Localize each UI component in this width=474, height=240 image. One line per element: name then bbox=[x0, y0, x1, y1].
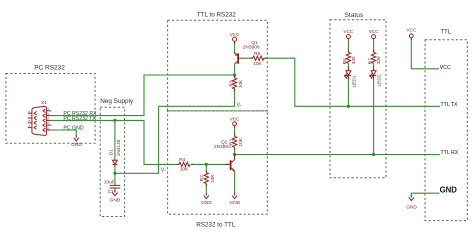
junction R2 tap on base line bbox=[205, 163, 208, 166]
svg-text:LED1: LED1 bbox=[351, 75, 357, 87]
svg-text:VCC: VCC bbox=[406, 27, 416, 32]
junction Q2 collector node bbox=[233, 153, 236, 156]
power VCC above Q1 bbox=[230, 32, 240, 41]
capacitor C1 10uF bbox=[104, 180, 120, 195]
svg-text:10K: 10K bbox=[180, 166, 189, 172]
svg-text:R3: R3 bbox=[229, 80, 235, 86]
resistor R2 10K bbox=[199, 164, 216, 183]
svg-text:10K: 10K bbox=[238, 79, 244, 88]
junction LED1 on TTL TX bbox=[347, 105, 350, 108]
wire PC RS232 RX net bbox=[51, 75, 234, 116]
svg-text:PC RS232: PC RS232 bbox=[34, 64, 65, 71]
module box PC RS232 bbox=[6, 64, 95, 143]
wire Q1 base to R5 bbox=[245, 57, 253, 59]
wire LED2 to TTL RX bbox=[373, 81, 375, 155]
svg-text:TTL TX: TTL TX bbox=[441, 102, 459, 108]
svg-text:R6: R6 bbox=[342, 58, 348, 64]
svg-text:330: 330 bbox=[376, 56, 382, 64]
module box Neg Supply bbox=[100, 98, 134, 217]
resistor R1 10K bbox=[229, 136, 244, 147]
wire R7 to LED2 bbox=[373, 63, 375, 71]
pin 9 stub bbox=[28, 124, 37, 129]
svg-text:VCC: VCC bbox=[230, 32, 240, 37]
pin 6 stub bbox=[28, 110, 37, 116]
wire PC GND net bbox=[51, 130, 76, 138]
svg-text:PC GND: PC GND bbox=[63, 125, 83, 131]
wire VCC to R7 bbox=[373, 41, 375, 52]
resistor R3 10K bbox=[229, 78, 244, 89]
wire V- net bbox=[115, 106, 235, 173]
pin 4 stub bbox=[43, 122, 51, 128]
pin 1 stub bbox=[43, 107, 51, 113]
LED1 bbox=[344, 67, 357, 88]
svg-text:Status: Status bbox=[345, 12, 364, 19]
svg-text:GND: GND bbox=[406, 204, 417, 210]
wire GND net to TTL header bbox=[411, 193, 439, 197]
junction C1 tap on V- rail bbox=[113, 172, 116, 175]
wire C1 top bbox=[114, 173, 116, 183]
ground under R2 bbox=[201, 195, 212, 206]
svg-text:GND: GND bbox=[201, 200, 212, 206]
wire VCC to R1 bbox=[234, 126, 236, 137]
svg-text:D1: D1 bbox=[109, 149, 115, 155]
pin 7 stub bbox=[28, 114, 37, 120]
svg-text:X1: X1 bbox=[41, 100, 47, 106]
module box RS232 to TTL bbox=[168, 111, 268, 228]
transistor Q2 2N3904 bbox=[214, 139, 235, 171]
wire VCC to R6 bbox=[347, 41, 349, 52]
svg-text:PC RS232 TX: PC RS232 TX bbox=[63, 116, 96, 122]
svg-text:VCC: VCC bbox=[230, 116, 240, 121]
wire LED1 to TTL TX bbox=[347, 81, 349, 107]
transistor Q1 2N3906 bbox=[235, 40, 260, 65]
diode D1 1N4148 bbox=[109, 139, 123, 164]
svg-text:GND: GND bbox=[440, 185, 458, 194]
wire PC RS232 TX to Q2 base bbox=[191, 163, 230, 165]
svg-text:R4: R4 bbox=[179, 157, 185, 163]
wire Q1 collector down to junction bbox=[234, 65, 236, 75]
connector X1 DB9 body bbox=[32, 100, 47, 135]
module box TTL to RS232 bbox=[168, 12, 268, 111]
svg-text:TTL RX: TTL RX bbox=[441, 150, 459, 156]
LED2 bbox=[370, 67, 383, 87]
power VCC above R1 bbox=[230, 116, 240, 125]
svg-text:V-: V- bbox=[237, 102, 242, 108]
wire R6 to LED1 bbox=[347, 63, 349, 71]
wire R2 to ground bbox=[205, 184, 207, 196]
ground under C1 bbox=[110, 193, 121, 204]
svg-text:2N3906: 2N3906 bbox=[243, 44, 260, 50]
wire VCC to Q1 emitter bbox=[234, 41, 236, 51]
wire R1 to collector junction bbox=[234, 147, 236, 154]
svg-text:10K: 10K bbox=[210, 174, 216, 183]
wire TX to diode D1 bbox=[114, 120, 116, 158]
wire VCC net to TTL header bbox=[411, 38, 439, 69]
module box Status bbox=[330, 12, 386, 178]
wire D1 cathode to V- rail bbox=[114, 164, 116, 167]
svg-text:1N4148: 1N4148 bbox=[116, 139, 122, 156]
wire junction to R3 bbox=[234, 75, 236, 78]
svg-text:VCC: VCC bbox=[369, 29, 379, 34]
svg-text:GND: GND bbox=[110, 197, 121, 203]
svg-text:10K: 10K bbox=[253, 61, 262, 67]
svg-text:GND: GND bbox=[230, 200, 241, 206]
svg-text:R1: R1 bbox=[229, 138, 235, 144]
wire Q2 emitter to ground bbox=[234, 172, 236, 195]
svg-text:TTL to RS232: TTL to RS232 bbox=[197, 12, 236, 19]
svg-text:LED2: LED2 bbox=[377, 74, 383, 86]
svg-text:V-: V- bbox=[161, 168, 166, 174]
svg-text:R7: R7 bbox=[367, 58, 373, 64]
ground under Q2 bbox=[230, 195, 241, 206]
svg-text:R5: R5 bbox=[254, 51, 260, 57]
resistor R7 330 bbox=[367, 52, 382, 64]
svg-text:GND: GND bbox=[71, 142, 82, 148]
ground right bbox=[406, 197, 417, 210]
resistor R6 330 bbox=[342, 52, 357, 64]
wire C1 bottom to ground bbox=[114, 188, 116, 193]
svg-text:R2: R2 bbox=[199, 175, 205, 181]
resistor R5 10K bbox=[253, 51, 264, 67]
junction LED2 on TTL RX bbox=[372, 153, 375, 156]
wire PC RS232 TX net bbox=[51, 120, 179, 164]
power VCC right bbox=[406, 27, 416, 37]
resistor R4 10K bbox=[179, 157, 190, 172]
svg-text:RS232 to TTL: RS232 to TTL bbox=[196, 221, 236, 228]
svg-text:TTL: TTL bbox=[441, 30, 452, 36]
pin 2 stub bbox=[43, 112, 51, 118]
svg-text:330: 330 bbox=[351, 56, 357, 64]
svg-text:VCC: VCC bbox=[344, 29, 354, 34]
junction Q1 collector node bbox=[233, 73, 236, 76]
ground under PC GND bbox=[71, 138, 82, 148]
svg-text:VCC: VCC bbox=[440, 65, 451, 71]
resistor lead accents bbox=[76, 38, 411, 198]
power VCC status column 2 bbox=[369, 29, 379, 39]
wire TTL RX net bbox=[235, 154, 440, 156]
power VCC status column 1 bbox=[344, 29, 354, 39]
module box TTL bbox=[425, 30, 467, 221]
pin 8 stub bbox=[28, 119, 37, 125]
svg-text:10uF: 10uF bbox=[104, 180, 115, 186]
wire R3 to V- bbox=[234, 89, 236, 106]
svg-text:Neg Supply: Neg Supply bbox=[100, 98, 134, 105]
junction D1 tap on TX line bbox=[113, 119, 116, 122]
svg-text:2N3904: 2N3904 bbox=[214, 144, 231, 150]
pin 3 stub bbox=[43, 117, 51, 123]
wire TTL TX net bbox=[264, 58, 440, 106]
pin 5 stub bbox=[43, 126, 51, 132]
svg-text:10K: 10K bbox=[238, 137, 244, 146]
